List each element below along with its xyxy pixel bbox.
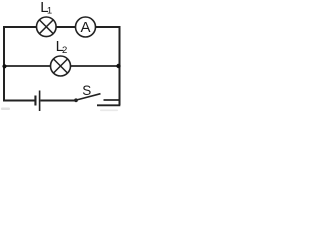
- lamp L2: [51, 56, 71, 76]
- switch pivot dot: [74, 98, 78, 102]
- node: right junction: [116, 64, 120, 68]
- ammeter A: [76, 17, 96, 37]
- lamp L1: [37, 17, 57, 37]
- node: left junction: [2, 64, 6, 68]
- svg-text:S: S: [82, 83, 91, 98]
- battery: long plate (positive): [39, 91, 41, 112]
- faint scan artifact bottom-right: [100, 110, 118, 112]
- switch fixed contact wire: [104, 99, 120, 101]
- wire: bottom from left corner to battery: [3, 100, 35, 102]
- svg-text:2: 2: [62, 45, 67, 56]
- wire: middle branch: [4, 65, 120, 67]
- wire: bottom-right lower segment: [97, 104, 120, 106]
- wire: battery to switch pivot: [40, 100, 75, 102]
- faint scan artifact bottom-left: [1, 108, 10, 111]
- switch lever (open): [77, 94, 101, 100]
- svg-text:A: A: [80, 19, 90, 36]
- wire: top + left vertical + right vertical outer loop: [4, 27, 120, 105]
- svg-text:1: 1: [47, 6, 52, 17]
- battery: short plate (negative): [34, 96, 36, 106]
